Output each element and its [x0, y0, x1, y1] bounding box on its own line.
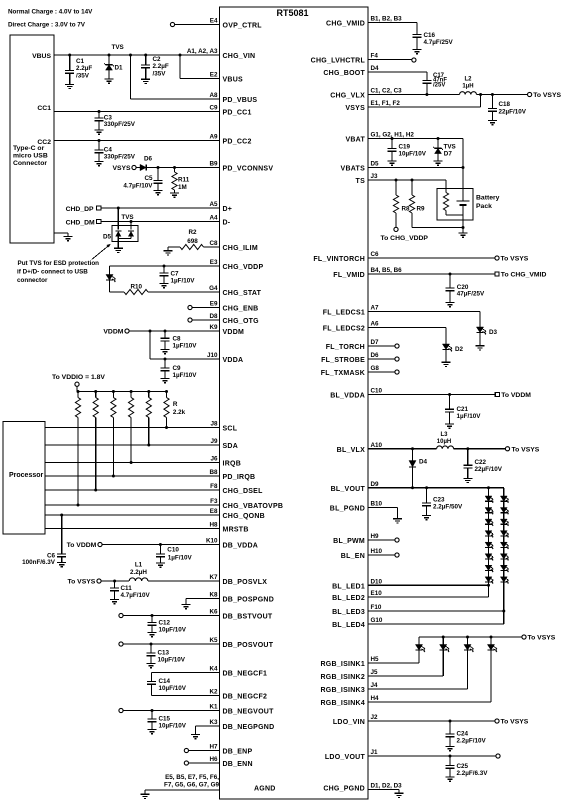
wire FL_TORCH: [368, 345, 395, 347]
svg-text:C15: C15: [159, 716, 171, 723]
capacitor C3 330pF/25V: [95, 112, 136, 131]
wire VDDA: [150, 358, 220, 360]
svg-text:BL_VLX: BL_VLX: [337, 447, 365, 454]
svg-text:R10: R10: [131, 283, 143, 290]
svg-text:DB_BSTVOUT: DB_BSTVOUT: [223, 614, 273, 621]
label R 2.2k: [173, 401, 186, 416]
svg-text:CHG_VMID: CHG_VMID: [326, 21, 365, 28]
svg-text:RGB_ISINK3: RGB_ISINK3: [320, 687, 365, 694]
pin G8 FL_TXMASK label: [321, 365, 380, 377]
capacitor C17 47nF/25V: [422, 73, 447, 95]
junction POS-C13: [150, 643, 153, 646]
svg-text:B1, B2, B3: B1, B2, B3: [371, 16, 403, 23]
pin K6 DB_BSTVOUT label: [209, 609, 272, 621]
svg-text:VSYS: VSYS: [345, 105, 365, 112]
ground C4: [95, 162, 104, 166]
label TVS D5: [121, 214, 133, 221]
svg-text:PD_VCONNSV: PD_VCONNSV: [223, 166, 274, 173]
wire VLX to VSYS terminal: [477, 94, 528, 96]
svg-text:E10: E10: [371, 590, 383, 597]
capacitor C25 2.2uF/6.3V: [446, 756, 489, 777]
pin B1, B2, B3 CHG_VMID label: [326, 16, 402, 28]
wire FL_LEDCS2: [368, 328, 446, 345]
pin B8 PD_IRQB label: [209, 469, 255, 481]
svg-text:A7: A7: [371, 305, 380, 312]
junction pullup to wire #6: [165, 426, 168, 429]
wire DB_NEGCF1: [151, 672, 219, 674]
pin D9 BL_VOUT label: [331, 481, 379, 493]
wire VDDIO rail: [77, 386, 167, 391]
svg-text:MRSTB: MRSTB: [223, 527, 249, 534]
wire CHG_BOOT: [368, 72, 427, 81]
resistor pullup 2.2k #1: [75, 392, 80, 506]
svg-text:C23: C23: [433, 497, 445, 504]
pin J3 TS label: [356, 173, 378, 185]
wire VBUS net: [54, 54, 220, 56]
pin E4 OVP_CTRL label: [210, 18, 263, 30]
connector J-USB Type-C box: [10, 35, 54, 243]
svg-text:J8: J8: [210, 421, 218, 428]
svg-text:VBUS: VBUS: [223, 77, 244, 84]
capacitor C6 100nF/6.3V: [22, 515, 66, 566]
junction pullup to wire #3: [112, 475, 115, 478]
node To VSYS terminal RGB: [522, 635, 556, 642]
svg-text:A5: A5: [209, 201, 218, 208]
svg-text:B10: B10: [371, 501, 383, 508]
pin C6 FL_VINTORCH label: [313, 251, 379, 263]
junction VBAT-C19: [391, 137, 394, 140]
svg-text:H4: H4: [371, 695, 380, 702]
svg-text:PD_IRQB: PD_IRQB: [223, 474, 256, 481]
wire D5 common anode: [118, 237, 131, 249]
junction RGB rail 4: [490, 636, 493, 639]
IC U1 RT5081 body: [220, 7, 369, 799]
capacitor C18 22uF/10V: [488, 95, 527, 121]
svg-text:E8: E8: [210, 508, 218, 515]
pin A9 PD_CC2 label: [209, 134, 251, 146]
note ESD protection: [17, 260, 99, 284]
svg-text:K6: K6: [209, 609, 218, 616]
svg-text:D+: D+: [223, 206, 233, 213]
pin E3 CHG_VDDP label: [210, 259, 264, 271]
battery cell: [457, 201, 470, 233]
svg-text:FL_LEDCS2: FL_LEDCS2: [323, 326, 365, 333]
svg-text:H6: H6: [209, 756, 218, 763]
svg-text:FL_VINTORCH: FL_VINTORCH: [313, 256, 365, 263]
svg-text:Direct Charge : 3.0V to 7V: Direct Charge : 3.0V to 7V: [8, 22, 86, 29]
svg-text:A4: A4: [209, 215, 218, 222]
svg-text:A1, A2, A3: A1, A2, A3: [187, 48, 218, 55]
pin D6 FL_STROBE label: [321, 352, 379, 364]
wire D-: [101, 221, 220, 223]
svg-text:DB_POSVOUT: DB_POSVOUT: [223, 642, 274, 649]
svg-text:RGB_ISINK4: RGB_ISINK4: [320, 700, 365, 707]
pin K2 DB_NEGCF2 label: [209, 689, 267, 701]
pin D7 FL_TORCH label: [326, 339, 379, 351]
junction VBUS-C2: [144, 54, 147, 57]
pin A8 PD_VBUS label: [209, 92, 257, 104]
node To VSYS terminal LDO: [495, 719, 529, 726]
node CHG_ENB terminal: [188, 305, 192, 309]
ground C19: [388, 161, 397, 165]
pin C10 BL_VDDA label: [330, 388, 382, 400]
node VDDIO terminal: [52, 374, 105, 386]
svg-text:10µF/10V: 10µF/10V: [159, 627, 187, 634]
junction DBVDDA-C10: [159, 543, 162, 546]
capacitor C16 4.7uF/25V: [413, 32, 454, 50]
svg-text:1µF/10V: 1µF/10V: [171, 278, 196, 285]
pin K8 DB_POSPGND label: [209, 592, 274, 604]
svg-text:R: R: [173, 401, 178, 408]
wire USB box to ground: [54, 233, 68, 237]
svg-text:1M: 1M: [178, 184, 187, 191]
pin F10 BL_LED3 label: [332, 604, 382, 616]
pin K10 DB_VDDA label: [206, 538, 258, 550]
ground C1: [65, 84, 74, 88]
svg-text:To VDDM: To VDDM: [67, 542, 97, 549]
svg-text:E1, F1, F2: E1, F1, F2: [371, 100, 401, 107]
pin E2 VBUS label: [210, 72, 243, 84]
svg-text:1µF/10V: 1µF/10V: [173, 372, 198, 379]
svg-text:BL_PGND: BL_PGND: [330, 506, 365, 513]
wire OVP_CTRL: [175, 24, 220, 26]
processor box: [3, 422, 45, 535]
pin J1 LDO_VOUT label: [325, 749, 378, 761]
ground C20: [446, 303, 455, 307]
wire VDDM to VDDA: [149, 331, 151, 359]
svg-text:To VDDM: To VDDM: [501, 392, 531, 399]
pin J4 RGB_ISINK3 label: [320, 682, 378, 694]
capacitor C4 330pF/25V: [95, 141, 136, 162]
svg-text:E2: E2: [210, 72, 218, 79]
node To VDDM terminal BL: [495, 392, 531, 399]
svg-text:CHG_DSEL: CHG_DSEL: [223, 488, 264, 495]
junction TS-R9: [411, 179, 414, 182]
ground C23: [422, 516, 431, 520]
ground C11: [110, 600, 119, 604]
wire FL_LEDCS1: [368, 312, 480, 328]
svg-text:To CHG_VMID: To CHG_VMID: [501, 272, 547, 279]
svg-text:2.2k: 2.2k: [173, 409, 186, 416]
resistor R8: [393, 180, 410, 227]
pin H6 DB_ENN label: [209, 756, 252, 768]
svg-text:1µH: 1µH: [462, 84, 473, 90]
RGB LED 4: [487, 637, 497, 702]
svg-text:BL_VDDA: BL_VDDA: [330, 393, 365, 400]
svg-text:F7, G5, G6, G7, G9: F7, G5, G6, G7, G9: [164, 782, 219, 789]
junction VDDA-C9: [164, 358, 167, 361]
capacitor C8 1uF/10V: [161, 331, 198, 350]
svg-text:if D+/D- connect to USB: if D+/D- connect to USB: [17, 268, 88, 275]
resistor pullup 2.2k #5: [146, 392, 151, 446]
wire CHG_PGND: [368, 790, 399, 794]
pin F8 CHG_DSEL label: [210, 483, 263, 495]
diode D6: [136, 156, 152, 171]
junction POSVLX-C11: [113, 580, 116, 583]
node BL_PWM terminal: [395, 538, 399, 542]
node DB_ENP terminal: [184, 748, 188, 752]
svg-text:BL_LED2: BL_LED2: [332, 595, 365, 602]
pin H4 RGB_ISINK4 label: [320, 695, 379, 707]
wire DB_NEGCF2: [151, 695, 219, 697]
pin E9 CHG_ENB label: [210, 301, 259, 313]
svg-text:C1: C1: [76, 58, 85, 65]
ground DB_NEGPGND: [191, 735, 200, 739]
wire CHG_LVHCTRL: [368, 59, 412, 61]
wire BL_PGND: [368, 508, 398, 519]
svg-text:To VSYS: To VSYS: [528, 635, 556, 642]
RGB LED 1: [415, 637, 425, 663]
svg-text:BL_LED1: BL_LED1: [332, 583, 365, 590]
pin J6 IRQB label: [210, 456, 241, 468]
svg-text:D1, D2, D3: D1, D2, D3: [371, 782, 403, 789]
svg-text:connector: connector: [17, 277, 48, 284]
node DB_ENN terminal: [184, 761, 188, 765]
TVS diode D1: [104, 44, 124, 79]
svg-text:2.2µF: 2.2µF: [153, 63, 169, 70]
junction VCONN-C5: [157, 166, 160, 169]
svg-text:Put TVS for ESD protection: Put TVS for ESD protection: [18, 260, 100, 267]
ground C18: [488, 121, 497, 125]
svg-text:2.2µF/6.3V: 2.2µF/6.3V: [457, 770, 489, 777]
svg-text:C1, C2, C3: C1, C2, C3: [371, 88, 403, 95]
svg-text:BL_EN: BL_EN: [341, 553, 365, 560]
wire PD_VCONNSV: [146, 167, 219, 169]
svg-text:DB_ENP: DB_ENP: [223, 749, 253, 756]
svg-text:Connector: Connector: [13, 160, 47, 167]
node To CHG_VMID terminal: [495, 272, 547, 279]
capacitor C23 2.2uF/50V: [422, 488, 463, 516]
svg-text:A8: A8: [209, 92, 218, 99]
svg-text:To VSYS: To VSYS: [67, 579, 95, 586]
svg-text:22µF/10V: 22µF/10V: [475, 466, 503, 473]
pin G10 BL_LED4 label: [332, 617, 383, 629]
svg-text:J6: J6: [210, 456, 218, 463]
TVS diode D7: [433, 139, 456, 162]
pin J2 LDO_VIN label: [333, 714, 378, 726]
junction VOUT-LEDcol1: [487, 486, 490, 489]
wire BL_VLX to VSYS terminal: [454, 448, 506, 450]
junction VLX-D4: [411, 447, 414, 450]
svg-text:C12: C12: [159, 620, 171, 627]
svg-text:D3: D3: [489, 329, 498, 336]
junction D+ tap: [117, 207, 120, 210]
svg-text:BL_LED3: BL_LED3: [332, 609, 365, 616]
pin A7 FL_LEDCS1 label: [323, 305, 379, 317]
svg-text:LDO_VIN: LDO_VIN: [333, 719, 365, 726]
pin C9 PD_CC1 label: [209, 105, 251, 117]
ground C6: [57, 563, 66, 567]
node FL_TXMASK terminal: [395, 370, 399, 374]
svg-text:FL_LEDCS1: FL_LEDCS1: [323, 310, 365, 317]
wire VBUS to PD_VBUS pin: [131, 55, 220, 99]
svg-text:K8: K8: [209, 592, 218, 599]
wire CHG_STAT: [148, 291, 220, 293]
ground BL_PGND: [393, 519, 402, 523]
svg-text:L3: L3: [440, 432, 448, 438]
node OVP_CTRL terminal: [170, 22, 174, 26]
svg-text:C9: C9: [209, 105, 218, 112]
wire BL_PWM: [368, 539, 395, 541]
junction CC1-C3: [98, 110, 101, 113]
junction rail R2: [94, 390, 97, 393]
junction VCONN-R11: [173, 166, 176, 169]
svg-text:VDDM: VDDM: [223, 329, 245, 336]
junction VSYS riser: [479, 93, 482, 96]
wire BL_VLX: [368, 448, 437, 450]
svg-text:To CHG_VDDP: To CHG_VDDP: [381, 235, 429, 242]
wire CHG_ENB: [192, 307, 219, 309]
svg-text:J10: J10: [207, 352, 218, 359]
wire VBAT: [368, 139, 463, 202]
ground C21: [445, 424, 454, 428]
node To VSYS terminal K7: [67, 579, 101, 586]
svg-text:VSYS: VSYS: [112, 165, 131, 172]
svg-text:J4: J4: [371, 682, 379, 689]
TVS diode D5b: [128, 231, 134, 237]
svg-text:BL_VOUT: BL_VOUT: [331, 486, 366, 493]
svg-text:E5, B5, E7, F5, F6,: E5, B5, E7, F5, F6,: [165, 774, 219, 781]
pin H5 RGB_ISINK1 label: [320, 656, 379, 668]
svg-text:C13: C13: [158, 650, 170, 657]
svg-text:G8: G8: [371, 365, 380, 372]
wire DB_POSVLX right: [148, 580, 220, 582]
svg-text:FL_STROBE: FL_STROBE: [321, 357, 365, 364]
svg-text:FL_TORCH: FL_TORCH: [326, 344, 365, 351]
node To VSYS terminal FL: [495, 256, 529, 263]
node CHD_DP terminal: [66, 206, 101, 213]
svg-text:4.7µF/10V: 4.7µF/10V: [123, 183, 153, 190]
svg-text:IRQB: IRQB: [223, 461, 242, 468]
wire RGB_ISINK4: [368, 701, 491, 703]
svg-text:CHG_QONB: CHG_QONB: [223, 513, 265, 520]
LED status indicator: [106, 266, 116, 292]
ground C3: [95, 130, 104, 134]
svg-text:10µF/10V: 10µF/10V: [158, 657, 186, 664]
svg-text:DB_VDDA: DB_VDDA: [223, 543, 259, 550]
svg-text:C21: C21: [457, 406, 469, 413]
svg-text:CHG_VIN: CHG_VIN: [223, 53, 256, 60]
svg-text:TS: TS: [356, 178, 366, 185]
svg-text:F3: F3: [210, 498, 218, 505]
ground DB_POSPGND: [182, 605, 191, 609]
svg-text:VDDM: VDDM: [103, 329, 123, 336]
svg-text:E9: E9: [210, 301, 218, 308]
svg-text:Normal Charge : 4.0V to 14V: Normal Charge : 4.0V to 14V: [8, 9, 93, 16]
svg-text:C25: C25: [457, 763, 469, 770]
svg-text:330pF/25V: 330pF/25V: [104, 153, 136, 160]
svg-text:CHG_PGND: CHG_PGND: [323, 786, 365, 793]
wire D+ into D5: [117, 208, 119, 230]
svg-text:A6: A6: [371, 321, 380, 328]
ground D3: [476, 346, 485, 350]
wire BL_LED3: [368, 610, 504, 612]
capacitor C1 2.2uF/35V: [65, 55, 92, 84]
resistor R10: [110, 283, 149, 294]
capacitor C21 1uF/10V: [445, 395, 481, 425]
svg-text:H10: H10: [371, 548, 383, 555]
wire DB_POSVOUT: [123, 643, 219, 645]
node FL_STROBE terminal: [395, 357, 399, 361]
svg-text:PD_CC2: PD_CC2: [223, 139, 252, 146]
junction VLX-C22: [466, 447, 469, 450]
junction TS-R8: [395, 179, 398, 182]
ground R11: [170, 193, 179, 197]
note normal charge: [8, 9, 93, 16]
capacitor C12 10uF/10V: [148, 616, 187, 634]
svg-text:C6: C6: [371, 251, 380, 258]
pin F3 CHG_VBATOVPB label: [210, 498, 283, 510]
ground R2: [164, 251, 173, 255]
wire FL_STROBE: [368, 358, 395, 360]
svg-text:CC1: CC1: [37, 105, 51, 112]
svg-text:D7: D7: [444, 150, 453, 157]
svg-text:22µF/10V: 22µF/10V: [499, 108, 527, 115]
pin B10 BL_PGND label: [330, 501, 383, 513]
junction VOUT-C23: [425, 486, 428, 489]
ground D5: [114, 248, 123, 252]
RGB LED 2: [440, 637, 450, 676]
svg-text:J3: J3: [371, 173, 379, 180]
svg-text:D10: D10: [371, 579, 383, 586]
svg-text:CHG_BOOT: CHG_BOOT: [323, 70, 365, 77]
wire CHG_VDDP: [110, 265, 220, 267]
svg-text:H7: H7: [209, 744, 218, 751]
wire DB_ENP: [189, 750, 220, 752]
pin D4 CHG_BOOT label: [323, 65, 379, 77]
node CHG_OTG terminal: [188, 318, 192, 322]
node VSYS terminal at D6: [112, 165, 136, 172]
svg-text:K2: K2: [209, 689, 218, 696]
resistor R2 698: [168, 229, 220, 251]
wire FL_VMID: [368, 273, 495, 275]
pin B4, B5, B6 FL_VMID label: [333, 267, 402, 279]
svg-text:RT5081: RT5081: [276, 8, 308, 18]
junction rail R3: [112, 390, 115, 393]
svg-text:J2: J2: [371, 714, 379, 721]
svg-text:J1: J1: [371, 749, 379, 756]
svg-text:CHG_VBATOVPB: CHG_VBATOVPB: [223, 503, 284, 510]
wire DB_NEGPGND: [196, 726, 220, 735]
node To CHG_VDDP terminal: [381, 227, 429, 242]
svg-text:L2: L2: [464, 77, 472, 83]
wire BL_VDDA: [368, 394, 495, 396]
pin J5 RGB_ISINK2 label: [320, 669, 378, 681]
svg-text:D2: D2: [455, 346, 464, 353]
junction VBAT-D7: [437, 137, 440, 140]
svg-text:H8: H8: [209, 522, 218, 529]
ground AGND: [141, 794, 150, 798]
note direct charge: [8, 22, 86, 29]
wire VBUS to E2 pin: [180, 55, 220, 79]
ground C24: [446, 747, 455, 751]
diode D4: [409, 449, 428, 488]
pin H10 BL_EN label: [341, 548, 383, 560]
wire RGB_ISINK2: [368, 675, 443, 677]
wire TS: [368, 179, 446, 181]
svg-text:SCL: SCL: [223, 426, 238, 433]
pin K3 DB_NEGPGND label: [209, 719, 274, 731]
svg-text:E3: E3: [210, 259, 218, 266]
pin K4 DB_NEGCF1 label: [209, 666, 267, 678]
wire BL_LED2: [368, 596, 489, 598]
wire RGB_ISINK1: [368, 662, 419, 664]
ground CHG_PGND: [395, 793, 404, 797]
junction QONB-C6: [60, 514, 63, 517]
wire D- into D5: [130, 222, 132, 230]
junction VBATS on battery: [462, 166, 465, 169]
svg-text:C14: C14: [159, 678, 171, 685]
